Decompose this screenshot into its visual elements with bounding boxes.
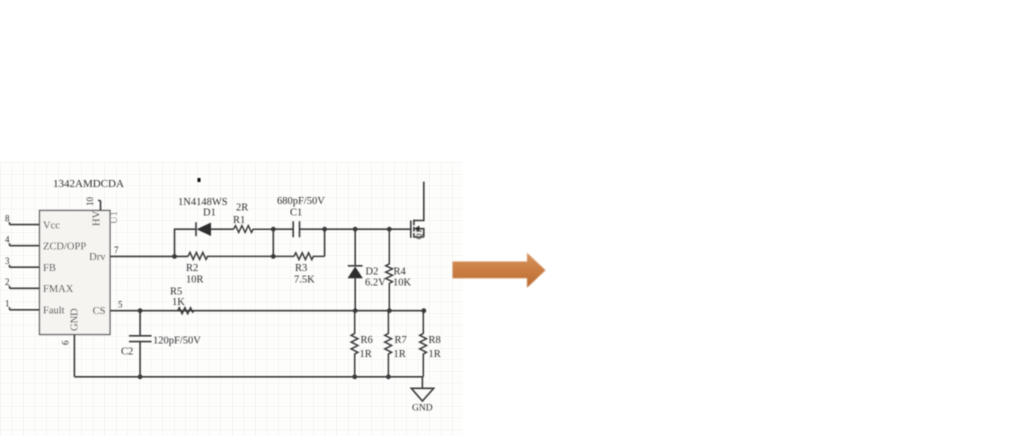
node C2 top	[138, 308, 143, 313]
resistor R6 1R	[351, 311, 358, 377]
svg-text:7: 7	[114, 245, 119, 255]
svg-text:D2: D2	[366, 267, 379, 278]
svg-text:5: 5	[118, 300, 123, 310]
svg-text:R8: R8	[429, 335, 441, 346]
svg-text:2: 2	[5, 277, 10, 287]
svg-text:ZCD/OPP: ZCD/OPP	[43, 241, 86, 252]
svg-text:680pF/50V: 680pF/50V	[277, 196, 325, 207]
resistor R5 1K zigzag	[178, 308, 194, 314]
wire gate net	[325, 228, 411, 230]
svg-text:6.2V: 6.2V	[365, 278, 386, 289]
svg-text:1R: 1R	[429, 349, 441, 360]
svg-text:10: 10	[85, 197, 95, 207]
svg-text:GND: GND	[70, 308, 81, 331]
svg-text:Q1: Q1	[414, 229, 424, 239]
svg-text:8: 8	[5, 214, 10, 224]
resistor R3 zigzag	[273, 253, 324, 260]
svg-text:R1: R1	[233, 215, 245, 226]
node C2 bottom	[138, 374, 143, 379]
svg-text:FMAX: FMAX	[43, 284, 74, 295]
svg-text:7.5K: 7.5K	[294, 275, 315, 286]
pin 4 ZCD/OPP	[10, 243, 40, 246]
svg-text:R2: R2	[186, 263, 198, 274]
orange transition arrow	[453, 253, 546, 288]
pin 8 Vcc	[10, 222, 40, 225]
svg-text:R3: R3	[295, 263, 307, 274]
svg-text:1K: 1K	[172, 297, 185, 308]
svg-text:3: 3	[5, 256, 10, 266]
svg-text:R4: R4	[394, 267, 407, 278]
svg-text:R6: R6	[361, 335, 373, 346]
pin 2 FMAX	[10, 286, 40, 289]
svg-text:1342AMDCDA: 1342AMDCDA	[53, 178, 124, 190]
capacitor C2 120pF/50V	[129, 311, 152, 377]
svg-text:120pF/50V: 120pF/50V	[153, 336, 201, 347]
pin 1 Fault	[10, 307, 40, 310]
svg-text:U1: U1	[109, 211, 120, 224]
node Q1 source on CS	[421, 308, 426, 313]
svg-text:2R: 2R	[236, 203, 248, 214]
capacitor C1 680pF/50V	[273, 221, 325, 237]
svg-text:HV: HV	[92, 210, 103, 226]
svg-text:1R: 1R	[394, 349, 406, 360]
node D2 top	[353, 227, 358, 232]
svg-text:D1: D1	[203, 208, 216, 219]
zener diode D2 6.2V	[348, 229, 363, 310]
scanned-page background with faint grid	[0, 162, 463, 436]
svg-text:Fault: Fault	[43, 306, 65, 317]
svg-text:FB: FB	[43, 263, 56, 274]
node R7 bottom	[386, 374, 391, 379]
wire CS net	[110, 310, 424, 312]
node gate net left	[322, 227, 327, 232]
node R4 top	[387, 227, 392, 232]
transistor Q1 MOSFET	[410, 221, 412, 238]
node R4 bottom on CS	[387, 308, 392, 313]
svg-text:1R: 1R	[360, 349, 372, 360]
svg-text:Drv: Drv	[89, 252, 106, 263]
pin 3 FB	[10, 265, 40, 268]
stray ink dot	[198, 178, 201, 182]
svg-text:R7: R7	[395, 335, 407, 346]
resistor R2 zigzag	[188, 252, 273, 259]
svg-text:10K: 10K	[393, 278, 412, 289]
wire Drv net	[110, 255, 188, 257]
wire vertical link to Drv net	[272, 229, 274, 256]
svg-text:CS: CS	[93, 306, 106, 317]
resistor R1 zigzag	[234, 226, 273, 233]
svg-text:Vcc: Vcc	[43, 220, 60, 231]
wire ground rail	[74, 376, 423, 378]
ground symbol GND	[411, 377, 433, 401]
svg-text:R5: R5	[170, 287, 182, 298]
pin 10 HV stub	[98, 201, 101, 211]
resistor R4 10K (vertical)	[386, 229, 393, 311]
node R6 bottom	[352, 374, 357, 379]
diode D1 (1N4148WS)	[195, 222, 197, 236]
pin 6 stub down from IC	[73, 335, 75, 377]
node snubber mid junction	[271, 227, 276, 232]
svg-text:C2: C2	[121, 347, 133, 358]
resistor R8 1R	[420, 311, 427, 377]
wire vertical up to snubber branch	[175, 229, 196, 256]
svg-text:C1: C1	[290, 208, 302, 219]
svg-text:6: 6	[61, 340, 71, 345]
node D2 bottom on CS	[353, 308, 358, 313]
resistor R7 1R	[385, 311, 392, 377]
svg-text:1N4148WS: 1N4148WS	[178, 197, 228, 208]
node Drv-D1 junction	[172, 254, 177, 259]
svg-text:1: 1	[5, 299, 10, 309]
svg-text:10R: 10R	[186, 275, 204, 286]
op-amp U1 controller IC body	[40, 211, 111, 335]
svg-text:4: 4	[5, 235, 10, 245]
svg-text:GND: GND	[412, 404, 433, 414]
wire C1/R3 right vertical	[324, 229, 326, 256]
